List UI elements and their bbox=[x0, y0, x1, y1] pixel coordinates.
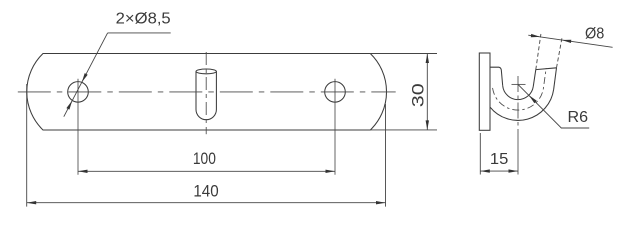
hook center cross horizontal bbox=[512, 83, 526, 85]
rod vertical centerline bbox=[205, 48, 207, 134]
main horizontal centerline bbox=[18, 91, 396, 93]
svg-text:2×Ø8,5: 2×Ø8,5 bbox=[116, 11, 171, 28]
rod front view: end face ellipse bbox=[196, 69, 216, 74]
left hole vertical centerline / extension bbox=[77, 79, 79, 175]
hole right (Ø8,5) bbox=[325, 82, 346, 103]
hook outer arc bbox=[490, 89, 554, 120]
dimension 30 bottom arrow bbox=[426, 120, 429, 129]
hook free end face bbox=[536, 68, 557, 70]
svg-text:30: 30 bbox=[409, 83, 427, 107]
dimension 30 top arrow bbox=[426, 54, 429, 64]
dimension Ø8 right extension (dashed) bbox=[557, 37, 563, 68]
hook vertical centerline / 15 extension bbox=[517, 74, 519, 138]
label 2xØ8,5 upper arrow bbox=[82, 73, 88, 82]
rod front view: left side bbox=[195, 71, 197, 109]
dimension Ø8 right arrow bbox=[562, 40, 572, 43]
svg-text:100: 100 bbox=[193, 150, 216, 168]
dimension 30 bottom extension bbox=[370, 129, 437, 131]
dimension 140 right arrow bbox=[376, 201, 386, 204]
dimension 30 top extension bbox=[370, 53, 437, 55]
label R6 arrow bbox=[529, 95, 537, 103]
dimension 15 line bbox=[480, 170, 518, 172]
dimension 140 left arrow bbox=[27, 201, 37, 204]
dimension Ø8 line bbox=[528, 35, 612, 47]
right hole vertical centerline / extension bbox=[334, 79, 336, 175]
dimension 30 line bbox=[426, 54, 428, 130]
dimension 100 right arrow bbox=[326, 170, 336, 173]
label 2xØ8,5 shoulder bbox=[108, 32, 171, 34]
dimension 140 left extension bbox=[26, 84, 28, 207]
dimension 15 left extension bbox=[479, 133, 481, 175]
svg-text:R6: R6 bbox=[568, 109, 589, 126]
dimension 100 left arrow bbox=[78, 170, 88, 173]
dimension 100 line bbox=[78, 170, 335, 172]
front view plate outline bbox=[27, 54, 387, 131]
dimension 15 right arrow bbox=[509, 169, 519, 172]
dimension Ø8 left arrow bbox=[531, 34, 541, 37]
hook free end right edge bbox=[554, 68, 557, 90]
label R6 leader bbox=[518, 84, 589, 128]
hook inner arc R6 bbox=[503, 86, 534, 100]
svg-text:15: 15 bbox=[490, 151, 509, 168]
dimension Ø8 left extension (dashed) bbox=[536, 34, 541, 70]
dimension 140 line bbox=[27, 202, 386, 204]
svg-text:Ø8: Ø8 bbox=[585, 26, 604, 43]
dimension 15 left arrow bbox=[480, 169, 490, 172]
hook attachment top edge bbox=[490, 67, 503, 86]
side view plate section bbox=[479, 53, 490, 130]
rod front view: bottom bend bbox=[196, 110, 216, 120]
hook rod centerline arc bbox=[493, 68, 547, 110]
label 2xØ8,5 leader bbox=[64, 33, 108, 117]
hook free end left edge bbox=[533, 70, 536, 87]
dimension 140 right extension bbox=[385, 104, 387, 207]
rod front view: right side bbox=[215, 71, 217, 109]
svg-text:140: 140 bbox=[193, 183, 218, 201]
hole left (Ø8,5) bbox=[68, 82, 89, 103]
label 2xØ8,5 lower arrow bbox=[66, 100, 72, 109]
